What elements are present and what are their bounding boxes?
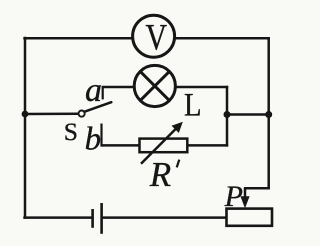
wire top rail bbox=[23, 37, 270, 40]
contact label b bbox=[85, 122, 102, 158]
lamp cross stroke 2 bbox=[140, 71, 169, 100]
svg-text:S: S bbox=[64, 117, 78, 146]
lamp circle bbox=[134, 65, 175, 106]
switch S blade bbox=[85, 102, 111, 111]
contact label a bbox=[85, 72, 102, 109]
node junction inner bbox=[224, 111, 231, 118]
lamp cross stroke 1 bbox=[140, 71, 169, 100]
battery positive plate (long) bbox=[100, 203, 103, 234]
wire bottom rail left of battery bbox=[23, 216, 92, 219]
wire inner vertical bbox=[226, 86, 229, 147]
rheostat label R' bbox=[149, 155, 180, 194]
rheostat R' box bbox=[140, 139, 188, 153]
potentiometer wiper arrow bbox=[240, 188, 249, 208]
lamp label L bbox=[184, 88, 202, 124]
svg-text:R: R bbox=[149, 155, 171, 194]
potentiometer label P bbox=[224, 180, 243, 213]
svg-text:a: a bbox=[85, 72, 102, 109]
switch contact b stub bbox=[100, 124, 102, 147]
svg-text:P: P bbox=[224, 180, 243, 213]
potentiometer P box bbox=[227, 209, 273, 226]
wire switch feed bbox=[25, 112, 80, 115]
svg-text:L: L bbox=[184, 88, 202, 124]
wire jog to wiper bbox=[244, 187, 270, 190]
switch S pivot bbox=[79, 111, 85, 117]
wire bottom rail right of battery bbox=[102, 216, 227, 219]
voltmeter U1 circle bbox=[133, 15, 175, 57]
voltmeter V label bbox=[145, 17, 167, 58]
node junction right rail bbox=[265, 111, 272, 118]
switch contact a stub bbox=[102, 86, 104, 99]
battery negative plate (short) bbox=[91, 209, 94, 228]
wire left rail bbox=[24, 37, 27, 219]
svg-text:V: V bbox=[145, 17, 167, 58]
node junction on left rail bbox=[22, 111, 29, 118]
wire right rail bbox=[267, 37, 270, 189]
svg-text:b: b bbox=[85, 122, 102, 158]
wire middle link bbox=[227, 113, 269, 116]
wire rheostat branch bbox=[102, 144, 229, 147]
rheostat arrow bbox=[141, 122, 183, 164]
switch label S bbox=[64, 117, 78, 146]
wire lamp branch bbox=[102, 86, 229, 89]
